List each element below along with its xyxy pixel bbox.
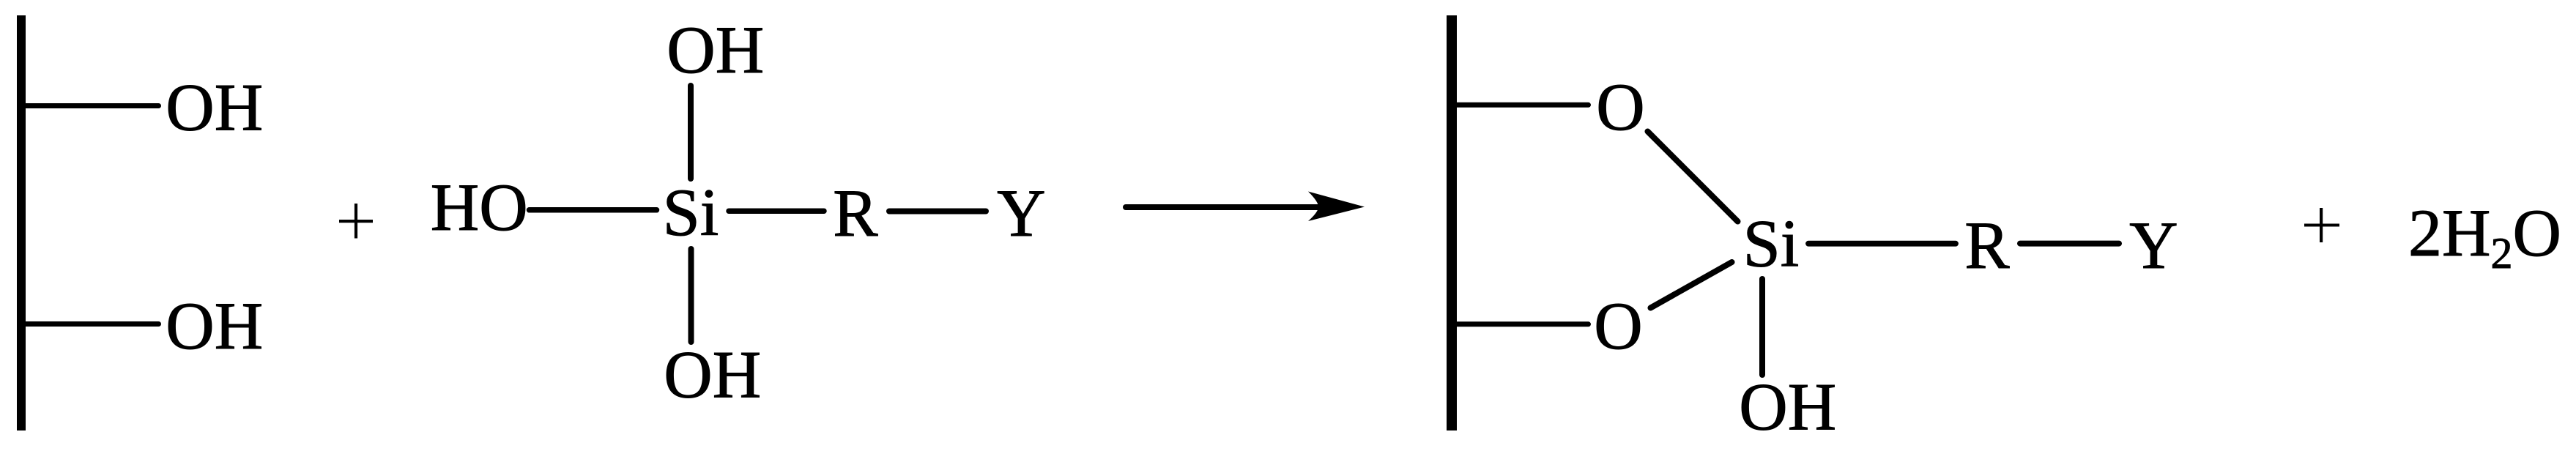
bond: R to Y (silane) xyxy=(889,209,986,215)
bond: Si to lower OH (silane) xyxy=(688,249,694,342)
bond: product surface to lower O xyxy=(1455,321,1589,327)
plus sign 2 (before 2H2O) xyxy=(2304,208,2339,242)
bond: HO to Si (silane) xyxy=(530,207,657,213)
plus sign 1 (between reactants) xyxy=(339,204,373,239)
svg-text:Si: Si xyxy=(1743,206,1800,281)
bond: surface to upper OH xyxy=(24,103,159,108)
svg-text:OH: OH xyxy=(1739,370,1836,444)
svg-text:R: R xyxy=(1964,208,2010,283)
bond: lower O to Si (product, diagonal) xyxy=(1651,262,1732,308)
svg-text:HO: HO xyxy=(431,170,528,245)
bond: R to Y (product) xyxy=(2020,241,2119,247)
bond: surface to lower OH xyxy=(24,321,159,327)
svg-text:R: R xyxy=(833,176,878,250)
bond: Si to R (product) xyxy=(1808,241,1956,247)
surface bar right (product substrate) xyxy=(1447,15,1457,430)
reaction arrow head xyxy=(1308,192,1365,222)
surface bar left (reactant substrate) xyxy=(17,15,26,430)
svg-text:O: O xyxy=(1596,70,1644,144)
svg-text:O: O xyxy=(1594,288,1642,363)
bond: Si to lower OH (product) xyxy=(1759,279,1765,375)
svg-text:OH: OH xyxy=(166,70,263,145)
reaction arrow shaft xyxy=(1126,204,1322,210)
svg-text:Y: Y xyxy=(2129,208,2178,283)
bond: Si to R (silane) xyxy=(729,208,824,214)
bond: product surface to upper O xyxy=(1455,102,1589,108)
svg-text:OH: OH xyxy=(664,338,761,412)
svg-text:Y: Y xyxy=(997,176,1045,250)
svg-text:2H2O: 2H2O xyxy=(2408,195,2561,277)
svg-text:OH: OH xyxy=(667,12,764,87)
bond: upper O to Si (product, diagonal) xyxy=(1648,132,1738,222)
svg-text:Si: Si xyxy=(663,175,719,250)
svg-text:OH: OH xyxy=(166,288,263,363)
bond: Si to upper OH (silane) xyxy=(688,86,694,179)
